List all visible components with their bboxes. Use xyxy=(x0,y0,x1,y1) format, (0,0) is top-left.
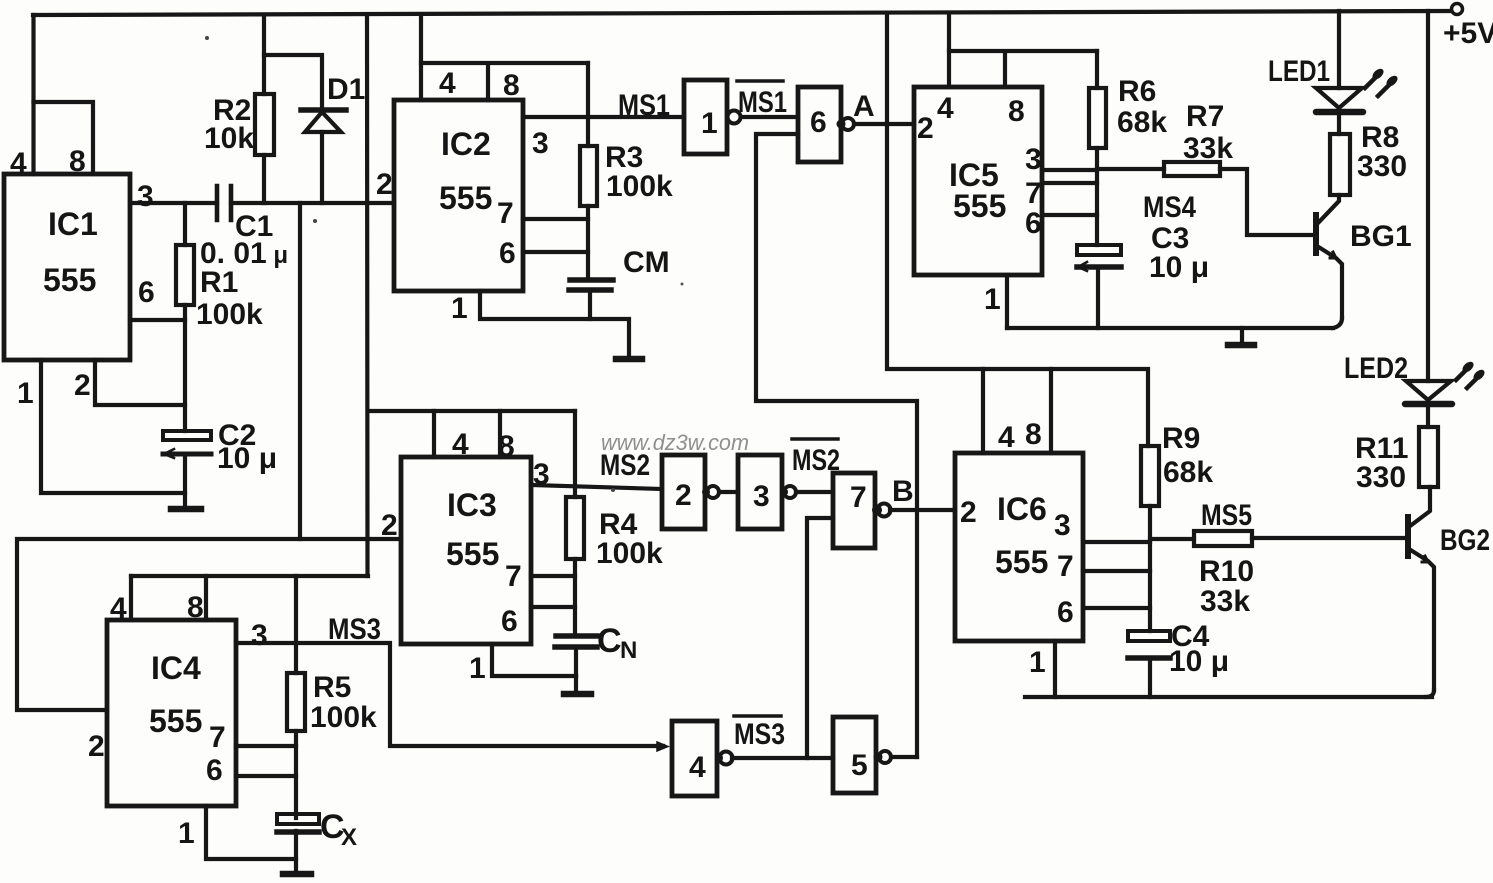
svg-text:6: 6 xyxy=(499,237,516,270)
svg-text:3: 3 xyxy=(137,180,154,213)
svg-text:6: 6 xyxy=(1057,596,1074,629)
svg-text:4: 4 xyxy=(689,751,706,784)
svg-text:4: 4 xyxy=(452,428,469,461)
svg-text:8: 8 xyxy=(503,69,520,102)
svg-text:2: 2 xyxy=(960,496,977,529)
svg-text:4: 4 xyxy=(998,421,1015,454)
svg-text:R9: R9 xyxy=(1162,422,1200,455)
svg-text:R5: R5 xyxy=(313,671,351,704)
svg-text:3: 3 xyxy=(533,458,550,491)
svg-text:8: 8 xyxy=(1008,95,1025,128)
svg-text:7: 7 xyxy=(505,560,522,593)
svg-text:A: A xyxy=(853,90,875,123)
svg-text:LED2: LED2 xyxy=(1344,352,1408,385)
svg-text:IC6: IC6 xyxy=(997,491,1047,527)
svg-text:10 μ: 10 μ xyxy=(1149,251,1209,284)
svg-text:1: 1 xyxy=(17,377,34,410)
svg-text:MS5: MS5 xyxy=(1201,499,1252,532)
svg-text:7: 7 xyxy=(850,481,867,514)
svg-text:10 μ: 10 μ xyxy=(1169,645,1229,678)
svg-text:33k: 33k xyxy=(1200,585,1250,618)
svg-text:BG1: BG1 xyxy=(1350,220,1412,253)
svg-text:IC3: IC3 xyxy=(447,487,497,523)
svg-text:100k: 100k xyxy=(606,170,673,203)
svg-text:IC1: IC1 xyxy=(48,206,98,242)
svg-text:68k: 68k xyxy=(1163,456,1213,489)
svg-text:100k: 100k xyxy=(196,298,263,331)
svg-text:5: 5 xyxy=(851,749,868,782)
svg-text:MS1: MS1 xyxy=(738,86,787,119)
svg-text:www.dz3w.com: www.dz3w.com xyxy=(601,430,749,455)
svg-text:330: 330 xyxy=(1357,150,1407,183)
svg-text:MS3: MS3 xyxy=(328,613,381,646)
svg-text:C: C xyxy=(597,622,622,660)
svg-text:R1: R1 xyxy=(200,266,238,299)
svg-text:+5V: +5V xyxy=(1443,17,1493,50)
svg-text:R6: R6 xyxy=(1118,75,1156,108)
svg-text:CM: CM xyxy=(623,246,670,279)
svg-text:4: 4 xyxy=(937,92,954,125)
svg-text:555: 555 xyxy=(439,180,492,216)
svg-text:4: 4 xyxy=(439,67,456,100)
svg-text:1: 1 xyxy=(701,107,718,140)
svg-text:N: N xyxy=(620,637,637,664)
svg-text:555: 555 xyxy=(43,262,96,298)
svg-text:2: 2 xyxy=(917,112,934,145)
svg-text:IC4: IC4 xyxy=(151,650,201,686)
svg-text:MS4: MS4 xyxy=(1143,191,1196,224)
svg-text:6: 6 xyxy=(810,106,827,139)
svg-text:1: 1 xyxy=(178,817,195,850)
svg-text:3: 3 xyxy=(1054,509,1071,542)
svg-text:B: B xyxy=(892,475,914,508)
svg-text:8: 8 xyxy=(69,145,86,178)
svg-text:100k: 100k xyxy=(310,701,377,734)
svg-text:4: 4 xyxy=(10,147,27,180)
svg-text:D1: D1 xyxy=(327,73,365,106)
svg-text:10k: 10k xyxy=(204,122,254,155)
svg-text:IC2: IC2 xyxy=(441,126,491,162)
svg-text:3: 3 xyxy=(532,127,549,160)
svg-text:7: 7 xyxy=(1057,550,1074,583)
svg-text:MS3: MS3 xyxy=(734,718,785,751)
svg-text:555: 555 xyxy=(995,544,1048,580)
svg-text:100k: 100k xyxy=(596,537,663,570)
svg-text:3: 3 xyxy=(251,619,268,652)
svg-text:1: 1 xyxy=(1029,646,1046,679)
svg-text:3: 3 xyxy=(753,480,770,513)
svg-text:33k: 33k xyxy=(1183,132,1233,165)
svg-text:8: 8 xyxy=(187,591,204,624)
svg-text:MS2: MS2 xyxy=(792,444,840,477)
svg-text:BG2: BG2 xyxy=(1440,524,1490,557)
svg-text:68k: 68k xyxy=(1117,106,1167,139)
svg-text:7: 7 xyxy=(209,721,226,754)
svg-text:330: 330 xyxy=(1356,461,1406,494)
svg-text:2: 2 xyxy=(88,730,105,763)
svg-text:6: 6 xyxy=(1025,207,1042,240)
svg-text:2: 2 xyxy=(675,479,692,512)
svg-text:2: 2 xyxy=(74,369,91,402)
svg-text:10 μ: 10 μ xyxy=(217,442,277,475)
svg-text:555: 555 xyxy=(953,188,1006,224)
svg-text:MS1: MS1 xyxy=(618,89,670,122)
svg-text:R10: R10 xyxy=(1199,555,1254,588)
svg-text:LED1: LED1 xyxy=(1268,55,1330,88)
svg-text:555: 555 xyxy=(149,703,202,739)
svg-text:7: 7 xyxy=(497,197,514,230)
svg-text:3: 3 xyxy=(1025,143,1042,176)
svg-text:6: 6 xyxy=(138,276,155,309)
svg-text:R7: R7 xyxy=(1186,100,1224,133)
svg-text:6: 6 xyxy=(206,754,223,787)
svg-text:8: 8 xyxy=(498,430,515,463)
svg-text:1: 1 xyxy=(469,652,486,685)
svg-text:7: 7 xyxy=(1025,177,1042,210)
svg-text:X: X xyxy=(341,824,357,851)
svg-text:4: 4 xyxy=(110,592,127,625)
svg-text:2: 2 xyxy=(381,509,398,542)
svg-text:1: 1 xyxy=(451,292,468,325)
svg-text:1: 1 xyxy=(984,283,1001,316)
svg-text:8: 8 xyxy=(1025,418,1042,451)
svg-text:2: 2 xyxy=(376,168,393,201)
svg-text:6: 6 xyxy=(501,605,518,638)
svg-text:555: 555 xyxy=(446,536,499,572)
